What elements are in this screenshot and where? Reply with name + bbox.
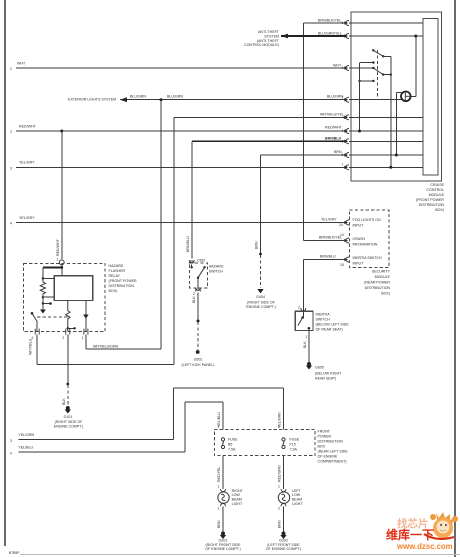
svg-text:RED/YEL: RED/YEL	[217, 467, 221, 482]
svg-text:G502: G502	[194, 358, 203, 362]
wire BLK below hazard switch	[192, 293, 200, 354]
svg-text:INERTIA SWITCH: INERTIA SWITCH	[353, 256, 382, 260]
wire BLK below inertia switch	[303, 331, 309, 362]
svg-text:1: 1	[82, 336, 84, 340]
svg-text:(LEFT KICK PANEL): (LEFT KICK PANEL)	[181, 363, 214, 367]
hazard switch internals	[191, 265, 206, 289]
svg-text:LIGHT: LIGHT	[232, 502, 243, 506]
svg-text:FOG LIGHTS ON: FOG LIGHTS ON	[353, 218, 382, 222]
connector label below hazard switch	[181, 358, 214, 368]
wire YEL/BLU bottom feed	[10, 402, 223, 456]
module interior switch S1 (upper contact)	[372, 49, 391, 57]
bottom page edge line	[20, 554, 460, 556]
wire vertical x=173.75 from relay terminal 4	[173, 117, 175, 364]
svg-text:(FRONT POWER: (FRONT POWER	[416, 198, 444, 202]
svg-text:G605: G605	[315, 366, 324, 370]
svg-text:2: 2	[278, 507, 280, 511]
svg-text:(RIGHT SIDE OF: (RIGHT SIDE OF	[247, 301, 275, 305]
svg-text:MODULE: MODULE	[375, 275, 391, 279]
fuse F-F15	[278, 425, 300, 451]
relay terminal numbers	[31, 336, 83, 340]
wire BLU/GRN exterior lights with arrow	[68, 94, 347, 102]
svg-text:RIGHT: RIGHT	[232, 489, 244, 493]
svg-text:BEAM: BEAM	[232, 498, 242, 502]
motor M1 symbol	[401, 92, 411, 102]
left low beam light E2	[278, 489, 303, 506]
wire from relay terminal 4 to module (WHT/BLU/YEL)	[28, 335, 173, 365]
svg-text:YEL/GRN: YEL/GRN	[18, 433, 34, 437]
inertia switch connector	[298, 306, 306, 312]
svg-text:F15: F15	[290, 442, 296, 446]
svg-text:BRN/BLK/YEL: BRN/BLK/YEL	[319, 236, 342, 240]
relay internal solid box	[54, 276, 92, 301]
svg-text:YEL/GRY: YEL/GRY	[19, 161, 35, 165]
svg-text:(ANTI-THEFT: (ANTI-THEFT	[257, 39, 280, 43]
svg-text:INFORMATION: INFORMATION	[353, 243, 378, 247]
wire WHT/BLU/YEL pin 1	[174, 112, 347, 119]
svg-text:BRN/BLK/YEL: BRN/BLK/YEL	[318, 19, 341, 23]
relay coil (zigzag)	[40, 282, 54, 314]
svg-text:LEFT: LEFT	[292, 489, 302, 493]
svg-text:CRUISE: CRUISE	[430, 183, 444, 187]
svg-text:4: 4	[10, 452, 12, 456]
right low beam light E1	[218, 489, 244, 506]
svg-text:2: 2	[218, 507, 220, 511]
relay output leg terminal 2 with resistor	[66, 301, 76, 332]
sheet number text	[9, 551, 20, 555]
relay output leg terminal 1 with diode mark	[83, 301, 88, 332]
svg-text:CRASH: CRASH	[353, 237, 366, 241]
motor left lead down to BRN pin wire	[395, 93, 402, 157]
svg-text:6: 6	[342, 139, 344, 143]
svg-text:(REAR POWER: (REAR POWER	[364, 281, 390, 285]
svg-text:FUSE: FUSE	[290, 437, 300, 441]
svg-text:2: 2	[193, 292, 195, 296]
relay terminals at box bottom	[35, 329, 88, 335]
svg-text:DISTRIBUTION: DISTRIBUTION	[365, 286, 391, 290]
svg-text:LOW: LOW	[232, 493, 241, 497]
svg-text:1: 1	[10, 67, 12, 71]
svg-text:G404: G404	[256, 295, 265, 299]
svg-text:INERTIA: INERTIA	[316, 313, 331, 317]
hazard switch label	[197, 259, 224, 274]
svg-text:WHT/BLU: WHT/BLU	[28, 338, 32, 355]
wire BRN/BLK/YEL pin 5 horizontal	[303, 19, 346, 26]
svg-text:14: 14	[340, 233, 344, 237]
wire BRN below right low beam	[217, 506, 223, 531]
svg-text:2: 2	[10, 130, 12, 134]
watermark logo bottom right	[386, 512, 458, 551]
fuse box dashed outline	[214, 429, 315, 455]
svg-text:2: 2	[342, 96, 344, 100]
crash information input wire	[303, 233, 377, 247]
security module pins	[346, 220, 349, 262]
svg-text:OF ENGINE COMPT.): OF ENGINE COMPT.)	[205, 547, 241, 551]
svg-text:WHT: WHT	[17, 62, 26, 66]
svg-text:1: 1	[278, 485, 280, 489]
control module U1 inner connector strip	[423, 19, 438, 176]
control module label	[416, 183, 445, 212]
svg-text:BRN: BRN	[217, 520, 221, 528]
svg-text:7: 7	[342, 163, 344, 167]
svg-text:DISTRIBUTION: DISTRIBUTION	[109, 284, 135, 288]
wire YEL/GRN bottom feed	[10, 388, 284, 443]
control module U1 outer box	[351, 12, 442, 181]
svg-text:FLASHER: FLASHER	[109, 269, 126, 273]
svg-text:YEL/GRY: YEL/GRY	[19, 216, 35, 220]
right page border	[454, 0, 456, 557]
svg-text:B5: B5	[228, 442, 232, 446]
hazard switch SW1 dashed box	[190, 263, 208, 288]
svg-text:24: 24	[339, 223, 343, 227]
svg-text:BLK: BLK	[303, 341, 307, 348]
rotated RED/WHT label on relay feed	[56, 238, 60, 256]
svg-text:REAR SEAT): REAR SEAT)	[315, 377, 336, 381]
svg-text:ENGINE COMPT.): ENGINE COMPT.)	[54, 425, 84, 429]
svg-text:FUSE: FUSE	[228, 437, 238, 441]
svg-text:ENGINE COMPT.): ENGINE COMPT.)	[246, 305, 276, 309]
svg-text:4: 4	[342, 34, 344, 38]
svg-text:BOX): BOX)	[435, 208, 444, 212]
svg-text:BRN/BLU: BRN/BLU	[320, 255, 336, 259]
ground G201 (right front of engine compt)	[205, 532, 241, 551]
hazard switch feed label	[186, 236, 190, 252]
svg-text:LIGHT: LIGHT	[292, 502, 303, 506]
vertical from switch contacts down to YEL/GRY pin wire	[389, 56, 392, 169]
mechanical link (dashed) between switches	[377, 50, 379, 98]
svg-text:1: 1	[278, 425, 280, 429]
svg-text:FRONT: FRONT	[318, 430, 331, 434]
svg-text:4: 4	[342, 129, 344, 133]
svg-text:DISTRIBUTION: DISTRIBUTION	[419, 203, 445, 207]
svg-text:CONTROL: CONTROL	[426, 188, 444, 192]
fog lights on input label	[353, 218, 382, 228]
svg-text:RED/WHT: RED/WHT	[325, 126, 343, 130]
svg-text:BOX): BOX)	[381, 292, 390, 296]
svg-text:(REAR LEFT SIDE: (REAR LEFT SIDE	[318, 450, 349, 454]
svg-text:BRN: BRN	[255, 241, 259, 249]
svg-text:BEAM: BEAM	[292, 498, 302, 502]
svg-text:4: 4	[10, 222, 12, 226]
svg-text:1: 1	[306, 335, 308, 339]
hazard switch connector	[189, 260, 194, 263]
wire BRN/BLU pin (bold)	[192, 136, 347, 143]
ground G101 (right side of engine compt)	[54, 406, 84, 429]
hazard flasher relay K1 dashed box	[24, 263, 105, 331]
vertical tie of contact stubs to RED/WHT pin wire	[358, 63, 361, 133]
security module dashed box	[350, 210, 389, 268]
svg-text:RED/GRN: RED/GRN	[277, 465, 281, 482]
svg-text:YEL/GRY: YEL/GRY	[321, 218, 337, 222]
svg-text:LOW: LOW	[292, 493, 301, 497]
node: vertical from exterior-lights wire down	[160, 100, 162, 349]
svg-text:SWITCH: SWITCH	[316, 318, 331, 322]
svg-text:MODULE: MODULE	[429, 193, 445, 197]
svg-text:RED/WHT: RED/WHT	[19, 124, 37, 128]
wire from relay terminal 1 (WHT/BLU/GRN)	[86, 335, 161, 349]
svg-text:B7B9P: B7B9P	[9, 551, 20, 555]
wire RED/YEL to right low beam	[217, 456, 223, 489]
svg-text:BLU/GRN/YEL: BLU/GRN/YEL	[318, 32, 342, 36]
svg-text:BOX: BOX	[318, 445, 326, 449]
left page border	[4, 0, 6, 546]
fixed contact stub lower	[358, 80, 374, 82]
svg-text:SECURITY: SECURITY	[372, 270, 391, 274]
anti-theft system label	[244, 30, 280, 47]
svg-text:BRN: BRN	[278, 520, 282, 528]
svg-text:G101: G101	[64, 415, 73, 419]
wire YEL/GRY to fog lights input	[10, 216, 347, 227]
motor right lead up to BLU/GRN/YEL wire	[411, 35, 417, 97]
svg-text:RELAY: RELAY	[109, 274, 121, 278]
relay K1 label	[109, 264, 137, 293]
wire BRN vertical to ground	[255, 155, 262, 288]
relay contact switch	[31, 312, 68, 332]
svg-text:BLK: BLK	[192, 296, 196, 303]
svg-text:WHT/BLU/GRN: WHT/BLU/GRN	[93, 344, 119, 348]
wire down to inertia switch	[302, 260, 304, 310]
svg-text:COMPARTMENT): COMPARTMENT)	[318, 460, 347, 464]
svg-text:7.5A: 7.5A	[290, 447, 298, 451]
svg-text:OF ENGINE: OF ENGINE	[318, 455, 338, 459]
security module label	[364, 270, 390, 296]
ground G605 (below right rear seat)	[306, 362, 342, 381]
svg-text:5: 5	[342, 21, 344, 25]
svg-text:POWER: POWER	[318, 435, 332, 439]
relay internal feed wiring	[42, 264, 63, 282]
ground G404 (right side of engine compt)	[246, 289, 276, 309]
svg-text:BLU/GRN: BLU/GRN	[167, 95, 183, 99]
fixed contact stub upper	[360, 61, 375, 63]
wire BLK from relay terminal 2 to ground	[62, 335, 69, 406]
svg-text:(FRONT POWER: (FRONT POWER	[109, 279, 137, 283]
svg-text:7.5A: 7.5A	[228, 447, 236, 451]
svg-text:1: 1	[218, 425, 220, 429]
svg-text:RED/WHT: RED/WHT	[56, 238, 60, 256]
svg-text:BLU/GRN: BLU/GRN	[130, 95, 146, 99]
svg-text:INPUT: INPUT	[353, 224, 365, 228]
svg-text:www.dzsc.com: www.dzsc.com	[396, 542, 453, 551]
ground G202 (left front of engine compt)	[266, 532, 302, 551]
svg-text:2: 2	[298, 306, 300, 310]
svg-text:HAZARD: HAZARD	[109, 264, 124, 268]
svg-text:3: 3	[342, 66, 344, 70]
svg-text:SWITCH: SWITCH	[209, 270, 224, 274]
svg-text:G201: G201	[219, 538, 228, 542]
svg-text:1: 1	[218, 485, 220, 489]
svg-text:8: 8	[342, 153, 344, 157]
svg-text:15: 15	[340, 263, 344, 267]
relay feed connector	[57, 258, 65, 265]
svg-text:3: 3	[10, 166, 12, 170]
wire BRN below left low beam	[278, 506, 284, 531]
svg-text:3: 3	[10, 439, 12, 443]
svg-text:SYSTEM: SYSTEM	[264, 34, 279, 38]
svg-text:OF ENGINE COMPT.): OF ENGINE COMPT.)	[266, 547, 302, 551]
svg-text:BRN/BLU: BRN/BLU	[186, 236, 190, 252]
wire RED/GRN to left low beam	[277, 456, 283, 489]
wire BRN pin	[261, 150, 347, 157]
module U1 pins (connector arcs with wire wedges)	[346, 21, 349, 170]
module interior: pin wires to strip	[349, 23, 423, 167]
hazard switch bottom connector	[193, 288, 201, 296]
svg-text:BOX): BOX)	[109, 289, 118, 293]
inertia switch SW2 box	[295, 309, 313, 331]
svg-text:YEL/BLU: YEL/BLU	[18, 445, 33, 449]
module interior switch S2 (lower, on WHT pin wire)	[372, 67, 392, 76]
svg-text:DISTRIBUTION: DISTRIBUTION	[318, 440, 344, 444]
wire BRN/BLK/YEL vertical run to security module	[302, 23, 304, 241]
svg-text:C562: C562	[197, 259, 205, 263]
svg-text:(BELOW RIGHT: (BELOW RIGHT	[315, 372, 342, 376]
svg-text:ANTI-THEFT: ANTI-THEFT	[258, 30, 280, 34]
wire BLU/GRN/YEL pin 4 (bold) with arrow to anti-theft	[281, 32, 347, 39]
wire YEL/GRY pin (upper)	[10, 161, 347, 171]
svg-text:EXTERIOR LIGHTS SYSTEM: EXTERIOR LIGHTS SYSTEM	[68, 98, 116, 102]
svg-text:OF REAR SEAT): OF REAR SEAT)	[316, 328, 343, 332]
svg-text:(BELOW LEFT SIDE: (BELOW LEFT SIDE	[316, 323, 350, 327]
svg-text:CONTROL MODULE): CONTROL MODULE)	[244, 43, 279, 47]
svg-text:1: 1	[57, 258, 59, 262]
svg-text:(RIGHT SIDE OF: (RIGHT SIDE OF	[55, 420, 83, 424]
svg-text:HAZARD: HAZARD	[209, 265, 224, 269]
inertia switch input wire BRN/BLU	[303, 255, 382, 267]
svg-text:BRN/BLU: BRN/BLU	[325, 136, 342, 140]
inertia switch label	[316, 313, 350, 332]
fuse F-B5	[218, 425, 239, 451]
svg-text:2: 2	[62, 336, 64, 340]
wire BRN/BLU vertical to hazard switch	[191, 141, 193, 258]
fuse box label	[318, 430, 349, 464]
svg-text:WHT/BLU/YEL: WHT/BLU/YEL	[320, 112, 344, 116]
svg-text:INPUT: INPUT	[353, 262, 365, 266]
svg-text:BLK: BLK	[62, 398, 66, 405]
wire WHT pin 3 long horizontal	[10, 62, 347, 71]
svg-text:G202: G202	[279, 538, 288, 542]
wire RED/WHT pin 2	[10, 124, 347, 134]
wire RED/WHT vertical to relay	[61, 131, 63, 259]
